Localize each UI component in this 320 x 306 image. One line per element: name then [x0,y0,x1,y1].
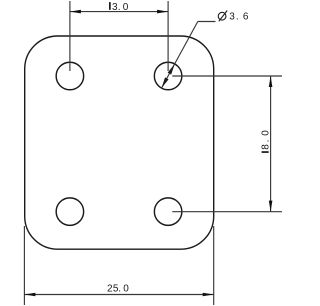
dimension text 13.0 (digit 1 as CAD bar) [109,2,111,10]
arrowhead top (dim 18.0) [269,76,273,87]
hole top-right [154,62,182,90]
extension line left (dim 25.0) [23,226,25,305]
leader text diameter symbol (circle) [218,12,226,20]
arrowhead right (dim 13.0) [157,10,168,14]
extension line right (dim 13.0) [167,1,169,71]
leader arrowhead lower-left (tip at circle edge) [162,77,169,88]
hole top-left [56,62,84,90]
leader arrowhead upper-right (tip at circle edge) [168,64,175,75]
hole bottom-right [154,198,182,226]
arrowhead bottom (dim 18.0) [269,201,273,212]
extension line left (dim 13.0) [69,1,71,71]
arrowhead left (dim 13.0) [70,10,81,14]
dimension text 18.0 (digit 1 as CAD bar, rotated) [262,151,269,153]
extension line top (dim 18.0) [172,75,282,77]
dimension line 25.0 [24,294,213,296]
plate outline (rounded rectangle) [25,36,214,249]
dimension line 13.0 [70,11,168,13]
arrowhead right (dim 25.0) [203,293,214,297]
hole bottom-left [56,198,84,226]
svg-text:3.0: 3.0 [112,2,129,13]
svg-text:25.0: 25.0 [107,284,129,295]
leader line horizontal [198,21,216,23]
leader line diagonal [175,22,198,65]
arrowhead left (dim 25.0) [24,293,35,297]
leader diameter line through top-right hole [162,64,175,88]
extension line bottom (dim 18.0) [172,211,282,213]
extension line right (dim 25.0) [213,226,215,305]
leader text diameter symbol (slash) [219,11,227,22]
dimension line 18.0 [270,76,272,212]
svg-text:8.0: 8.0 [261,130,272,150]
